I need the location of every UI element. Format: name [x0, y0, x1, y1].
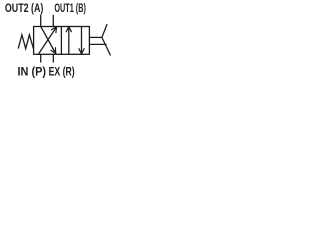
- solenoid coil bottom line: [89, 43, 107, 45]
- svg-text:IN (P): IN (P): [18, 66, 47, 78]
- solenoid lead lower: [102, 38, 111, 56]
- position divider: [60, 27, 62, 55]
- crossed flow arrow (ascending): [39, 27, 57, 54]
- solenoid lead upper: [102, 24, 107, 38]
- svg-text:OUT1 (B): OUT1 (B): [54, 3, 86, 15]
- return spring: [18, 35, 33, 49]
- port B stub (top): [52, 15, 54, 27]
- crossed flow arrow (descending): [41, 27, 56, 54]
- port P stub (bottom): [40, 54, 42, 62]
- straight flow arrow up: [68, 27, 70, 55]
- straight flow arrow down: [81, 27, 83, 54]
- port R stub (bottom): [52, 54, 54, 62]
- svg-text:OUT2 (A): OUT2 (A): [5, 3, 44, 15]
- valve body outline: [34, 27, 90, 55]
- solenoid coil top line: [89, 36, 102, 38]
- port A stub (top): [40, 15, 42, 27]
- svg-text:EX (R): EX (R): [49, 66, 75, 78]
